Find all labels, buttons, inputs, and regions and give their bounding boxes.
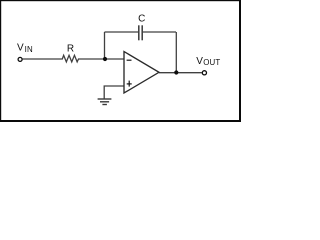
svg-text:R: R <box>67 44 74 55</box>
svg-text:C: C <box>138 13 145 24</box>
svg-text:V: V <box>17 43 24 54</box>
svg-text:OUT: OUT <box>203 58 220 67</box>
svg-text:IN: IN <box>25 45 33 54</box>
